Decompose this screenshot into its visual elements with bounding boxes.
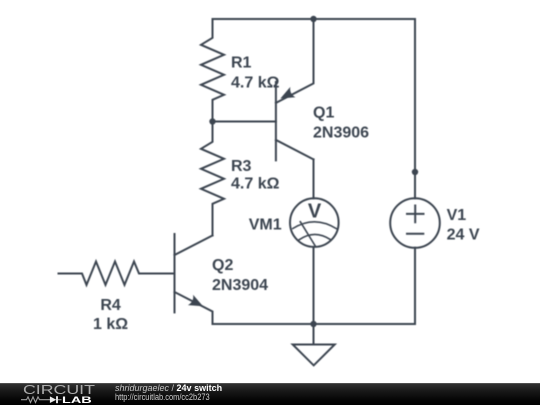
svg-text:VM1: VM1 <box>249 216 282 233</box>
svg-text:Q2: Q2 <box>212 257 233 274</box>
svg-text:Q1: Q1 <box>313 105 334 122</box>
svg-text:R3: R3 <box>231 158 252 175</box>
ground <box>293 324 335 365</box>
svg-text:4.7 kΩ: 4.7 kΩ <box>231 175 280 192</box>
node: top rail / Q1 emitter junction <box>310 16 316 22</box>
svg-text:2N3906: 2N3906 <box>313 125 369 142</box>
wire: top rail to V1 <box>414 19 416 198</box>
wire: V1 to bottom rail <box>414 248 416 324</box>
wire: Q1 collector to VM1 <box>313 159 315 198</box>
resistor R3 <box>201 122 224 236</box>
svg-text:1 kΩ: 1 kΩ <box>93 316 128 333</box>
svg-text:2N3904: 2N3904 <box>212 277 268 294</box>
svg-text:V1: V1 <box>447 207 467 224</box>
node: V1 top terminal <box>412 169 418 175</box>
footer line 1 <box>115 384 222 393</box>
svg-text:R4: R4 <box>100 297 121 314</box>
resistor R1 <box>201 19 224 122</box>
CircuitLab logo LAB <box>62 396 92 405</box>
wire: Q1 base <box>213 121 276 123</box>
resistor R4 <box>59 262 175 285</box>
wire: top rail <box>213 18 416 20</box>
voltage source V1 <box>390 198 440 248</box>
svg-text:R1: R1 <box>231 55 252 72</box>
CircuitLab logo text <box>23 385 95 395</box>
svg-text:4.7 kΩ: 4.7 kΩ <box>231 75 280 92</box>
svg-text:V: V <box>308 200 322 222</box>
svg-text:24 V: 24 V <box>447 227 480 244</box>
CircuitLab logo symbol row <box>18 393 68 405</box>
transistor Q2 (NPN) <box>175 234 213 324</box>
footer bar <box>0 383 540 405</box>
wire: bottom rail <box>213 323 416 325</box>
node: R1/R3/Q1-base junction <box>209 118 215 124</box>
transistor Q1 (PNP) <box>276 19 314 160</box>
voltmeter VM1 <box>290 198 339 247</box>
wire: VM1 to bottom rail <box>313 247 315 324</box>
footer line 2 <box>115 393 210 402</box>
node: bottom rail / ground junction <box>310 321 316 327</box>
